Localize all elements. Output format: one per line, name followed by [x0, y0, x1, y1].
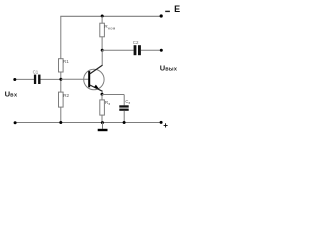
resistor R1	[59, 59, 64, 72]
capacitor Cэ	[119, 105, 128, 110]
resistor Rэ	[100, 100, 105, 115]
svg-text:R1: R1	[63, 59, 69, 64]
node: bottom-right terminal	[160, 121, 163, 124]
wire: C2 to output terminal	[141, 49, 161, 51]
transistor VT1 (NPN)	[84, 65, 104, 91]
wire: emitter vertical	[101, 91, 103, 95]
svg-text:Cэ: Cэ	[125, 99, 130, 105]
wire: base lead to transistor	[61, 78, 89, 80]
svg-text:R2: R2	[63, 93, 69, 98]
wire: Rэ bottom to ground rail	[101, 115, 103, 122]
resistor Rном	[100, 23, 105, 37]
wire: bottom rail	[15, 122, 161, 124]
node: top rail junction at Rном	[101, 15, 104, 18]
wire: Cэ top stem	[123, 95, 125, 106]
node: output terminal	[160, 49, 163, 52]
wire: emitter junction to Rэ	[101, 95, 103, 100]
wire: emitter junction to Cэ branch	[102, 94, 124, 96]
node: input terminal	[13, 78, 16, 81]
svg-text:Uвх: Uвх	[5, 90, 18, 99]
svg-text:+: +	[163, 121, 168, 130]
svg-text:Rном: Rном	[104, 24, 115, 30]
svg-text:C1: C1	[33, 70, 39, 75]
capacitor C2	[134, 45, 141, 55]
label − (minus of supply)	[165, 11, 170, 12]
node: Cэ rail junction	[123, 121, 126, 124]
wire: Rном to collector junction	[101, 37, 103, 51]
wire: top supply rail	[60, 15, 161, 17]
resistor R2	[59, 92, 64, 107]
svg-text:Rэ: Rэ	[105, 100, 110, 106]
node: emitter junction	[101, 93, 104, 96]
wire: collector junction to C2	[102, 49, 134, 51]
wire: input terminal to C1	[15, 78, 34, 80]
wire: collector vertical into transistor	[101, 50, 103, 65]
node: ground junction	[101, 121, 104, 124]
node: base junction (R1/R2 divider)	[59, 78, 62, 81]
capacitor C1	[34, 75, 41, 84]
wire: Cэ bottom stem	[123, 111, 125, 123]
node: -E supply terminal	[160, 14, 163, 17]
svg-text:Uвых: Uвых	[160, 64, 178, 73]
node: R2 rail junction	[59, 121, 62, 124]
svg-text:E: E	[174, 4, 180, 14]
wire: left column from top rail to R1	[60, 16, 62, 58]
wire: top rail to Rном	[101, 16, 103, 23]
svg-text:C2: C2	[133, 40, 139, 45]
wire: R1 bottom to base junction and R2	[60, 72, 62, 92]
node: bottom-left terminal	[14, 121, 17, 124]
wire: C1 to base junction	[41, 78, 61, 80]
ground	[98, 123, 108, 132]
wire: R2 bottom to ground rail	[60, 107, 62, 122]
node: collector junction	[101, 49, 104, 52]
